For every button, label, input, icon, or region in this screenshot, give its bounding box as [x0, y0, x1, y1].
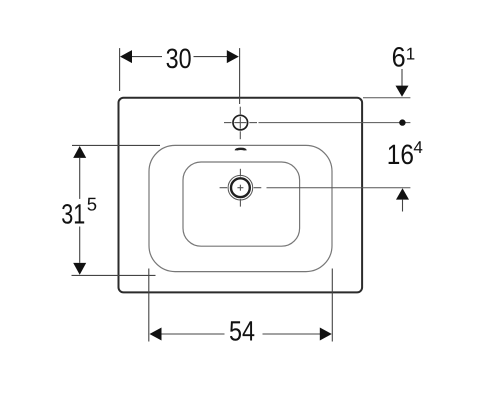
- drain reference line to right: [267, 187, 411, 189]
- dimension 30: extension line right: [239, 48, 241, 104]
- drain inner circle: [231, 178, 250, 197]
- svg-text:4: 4: [413, 138, 422, 157]
- dimension 54: right arrow: [320, 328, 332, 341]
- top edge extension line: [363, 97, 410, 99]
- basin bottom contour: [183, 162, 300, 246]
- tap hole reference line to right: [259, 122, 411, 124]
- svg-text:6: 6: [392, 42, 406, 73]
- dimension 315: extension line top: [72, 144, 160, 146]
- svg-text:5: 5: [87, 194, 97, 215]
- drain centerlines: [220, 169, 262, 207]
- dimension 30: right arrow: [227, 50, 239, 63]
- svg-text:54: 54: [229, 316, 255, 347]
- dimension 164: stem: [402, 200, 404, 212]
- dimension 54: extension line left: [148, 269, 150, 342]
- dimension 61: stem: [401, 69, 403, 86]
- dimension 315: stem: [79, 158, 81, 263]
- tap hole circle: [233, 115, 248, 130]
- dimension 164: up arrow: [396, 188, 409, 199]
- reference dot: [399, 119, 405, 125]
- svg-text:16: 16: [387, 139, 414, 170]
- tap hole centerlines: [224, 107, 257, 140]
- dimension 30: line: [132, 56, 228, 58]
- dimension 315: up arrow: [73, 146, 86, 158]
- dimension 54: left arrow: [150, 328, 162, 341]
- dimension 315: down arrow: [73, 263, 86, 275]
- overflow slot: [236, 149, 246, 151]
- dimension 54: extension line right: [331, 269, 333, 342]
- dimension 61: down arrow: [396, 86, 409, 97]
- dimension 30: extension line left: [119, 48, 121, 91]
- dimension 315: extension line bottom: [72, 274, 156, 276]
- washbasin outer outline: [119, 98, 363, 293]
- svg-text:30: 30: [166, 43, 192, 74]
- svg-text:1: 1: [406, 44, 415, 63]
- drain outer circle: [228, 175, 253, 200]
- svg-text:31: 31: [61, 199, 85, 230]
- dimension 54: line: [162, 333, 321, 335]
- dimension 30: left arrow: [120, 50, 132, 63]
- inner rim outline: [149, 145, 332, 271]
